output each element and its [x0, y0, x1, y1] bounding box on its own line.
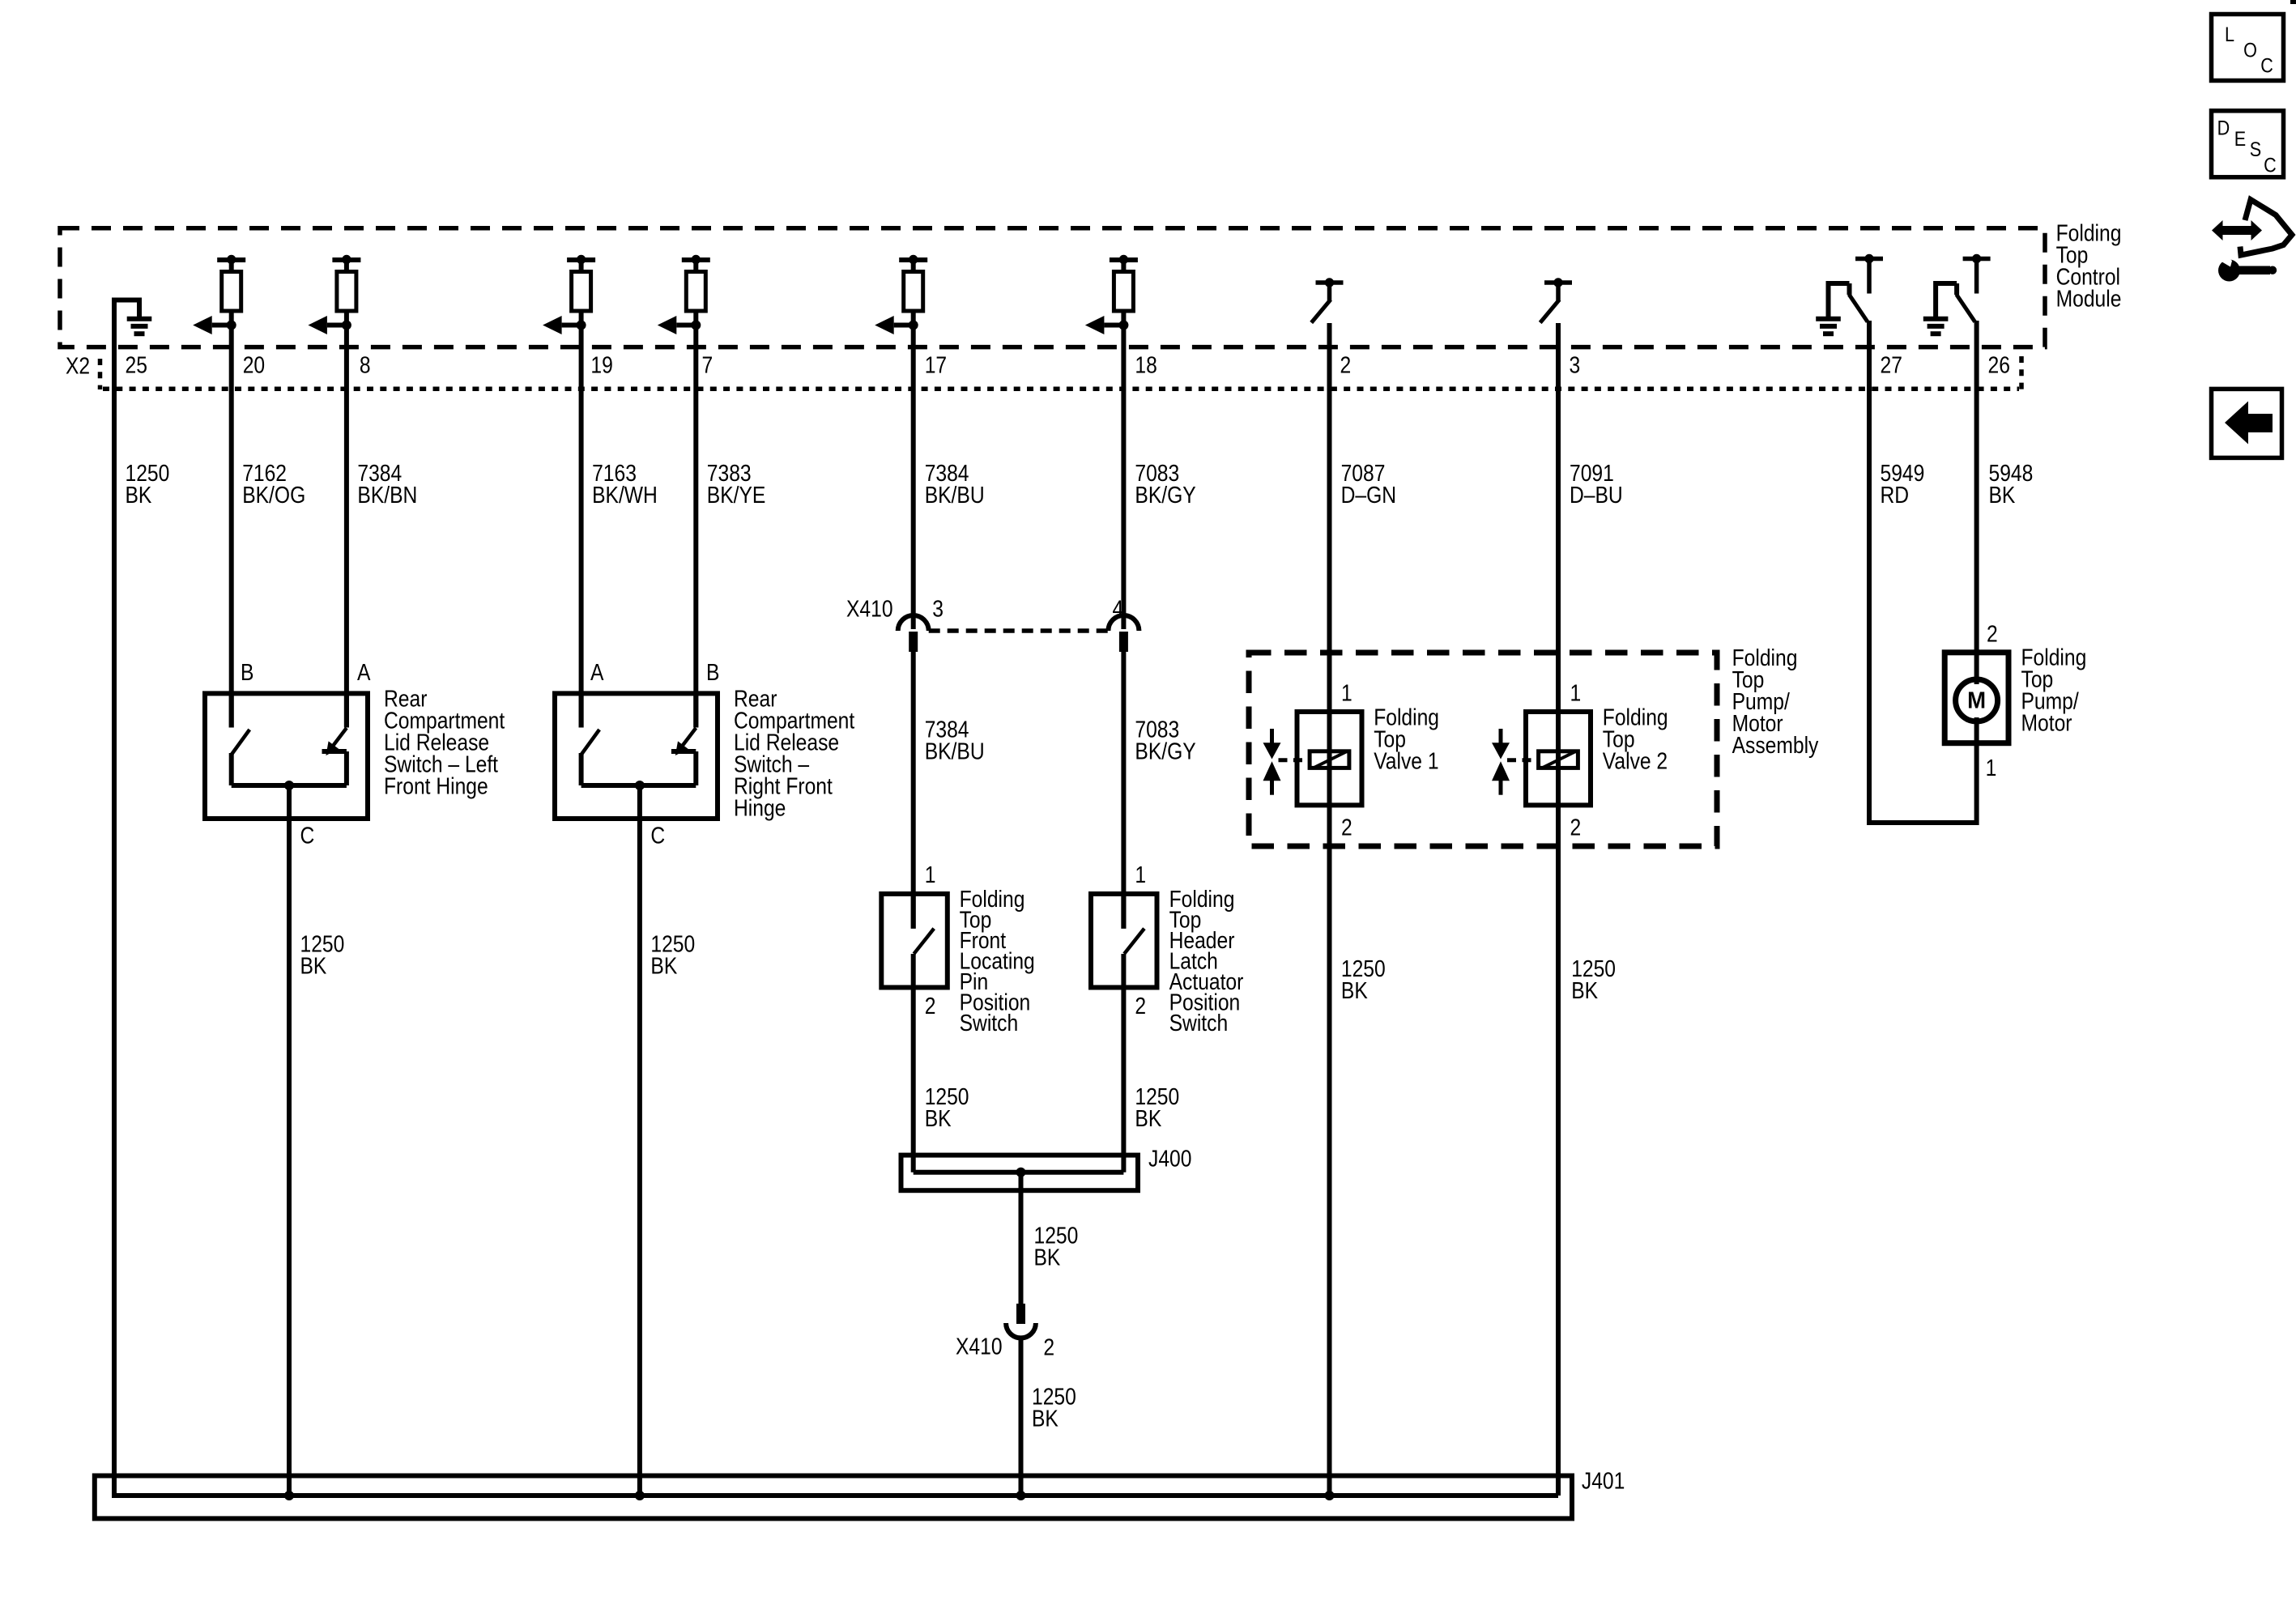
svg-text:2: 2 — [1135, 994, 1146, 1019]
wire pin20 to switch — [229, 326, 234, 728]
svg-text:2: 2 — [1570, 815, 1582, 840]
motor box: Folding Top Pump/Motor — [1945, 653, 2008, 743]
svg-text:Motor: Motor — [2021, 710, 2072, 736]
corner tick — [2290, 0, 2296, 4]
switch: Folding Top Header Latch Actuator Position Switch — [1091, 894, 1157, 988]
connector X410 dashed tie — [929, 628, 1109, 633]
splice pack J401 box — [95, 1476, 1572, 1519]
motor M1 circle — [1956, 679, 1998, 721]
splice pack J400 bus — [914, 1170, 1124, 1175]
svg-text:S: S — [2250, 138, 2261, 161]
svg-text:BK: BK — [1989, 482, 2016, 508]
connector X410 pin3 — [898, 615, 929, 631]
ground G (module internal) trace — [114, 300, 139, 1496]
connector X410 pin2 — [1016, 1304, 1025, 1324]
svg-text:BK: BK — [1571, 977, 1598, 1003]
svg-text:D–GN: D–GN — [1341, 482, 1396, 508]
svg-text:BK: BK — [300, 953, 327, 979]
assembly box: Folding Top Pump/Motor Assembly (dashed) — [1249, 653, 1717, 846]
svg-text:B: B — [241, 660, 253, 686]
svg-text:20: 20 — [243, 352, 265, 378]
svg-text:BK: BK — [1341, 977, 1368, 1003]
wire X410-3 to position switch — [911, 650, 916, 929]
switch S3 (module internal, pin 3) — [1544, 280, 1572, 285]
icon wrench — [2218, 260, 2240, 282]
wire pin18 to X410 — [1121, 326, 1126, 630]
wire C left switch to J401 — [287, 785, 292, 1496]
wire pin3 to J401 — [1556, 323, 1561, 1496]
icon hand outline — [2240, 200, 2292, 256]
switch: Rear Compartment Lid Release Switch - Right Front Hinge — [555, 693, 718, 819]
svg-text:7: 7 — [702, 352, 714, 378]
valve V2: Folding Top Valve 2 — [1526, 712, 1591, 805]
svg-text:X410: X410 — [956, 1334, 1003, 1360]
svg-text:BK/YE: BK/YE — [707, 482, 766, 508]
svg-text:O: O — [2243, 39, 2257, 62]
svg-text:27: 27 — [1881, 352, 1902, 378]
svg-text:Module: Module — [2056, 286, 2122, 312]
wire pin17 to X410 — [911, 326, 916, 630]
svg-text:BK/WH: BK/WH — [592, 482, 658, 508]
svg-text:3: 3 — [932, 596, 944, 622]
svg-text:1: 1 — [925, 862, 936, 888]
valve V1: Folding Top Valve 1 — [1297, 712, 1362, 805]
svg-text:1: 1 — [1986, 755, 1997, 781]
wire pin26 to motor — [1974, 321, 1979, 684]
icon double-arrow — [2212, 220, 2262, 240]
switch: Folding Top Front Locating Pin Position Switch — [881, 894, 948, 988]
svg-text:E: E — [2234, 127, 2246, 150]
svg-text:RD: RD — [1881, 482, 1910, 508]
wire C right switch to J401 — [637, 785, 642, 1496]
icon back-arrow — [2225, 402, 2273, 445]
connector X2 dotted row — [103, 387, 2019, 392]
svg-text:Switch: Switch — [1169, 1011, 1229, 1036]
wire pin8 to switch — [344, 326, 349, 728]
svg-text:BK: BK — [126, 482, 152, 508]
svg-text:C: C — [300, 823, 315, 849]
svg-text:BK/BN: BK/BN — [357, 482, 417, 508]
connector X410 pin4 — [1108, 615, 1139, 631]
svg-text:M: M — [1967, 687, 1986, 713]
svg-text:1: 1 — [1341, 680, 1352, 706]
svg-text:BK/BU: BK/BU — [925, 482, 985, 508]
svg-text:1: 1 — [1570, 680, 1582, 706]
svg-text:26: 26 — [1988, 352, 2010, 378]
svg-text:D–BU: D–BU — [1570, 482, 1623, 508]
svg-text:Assembly: Assembly — [1732, 732, 1819, 758]
svg-text:19: 19 — [590, 352, 612, 378]
svg-text:Valve 1: Valve 1 — [1374, 748, 1438, 774]
junction dot J401-4 — [1325, 1491, 1335, 1500]
resistor R20 (pin pull-up with arrow) — [217, 257, 245, 262]
wire front locating switch to J400 — [911, 954, 916, 1172]
svg-text:X410: X410 — [846, 596, 893, 622]
svg-text:3: 3 — [1570, 352, 1581, 378]
junction dot J401-3 — [1016, 1491, 1026, 1500]
wire pin7 to switch — [693, 326, 698, 728]
svg-text:2: 2 — [1987, 621, 1998, 647]
svg-text:2: 2 — [1341, 815, 1352, 840]
icon DESC box — [2212, 111, 2284, 177]
resistor R19 (pin pull-up with arrow) — [567, 257, 595, 262]
wire pin2 to J401 — [1327, 323, 1332, 1496]
junction dot J400 — [1016, 1168, 1026, 1177]
svg-text:B: B — [706, 660, 719, 686]
connector X2 right bracket — [2019, 356, 2024, 389]
svg-text:BK/OG: BK/OG — [242, 482, 305, 508]
svg-text:BK: BK — [650, 953, 677, 979]
junction dot J401-1 — [284, 1491, 294, 1500]
resistor R7 (pin pull-up with arrow) — [682, 257, 710, 262]
wire J400 to X410-2 — [1019, 1172, 1024, 1304]
ground G symbol — [127, 317, 152, 321]
svg-text:BK: BK — [1032, 1406, 1059, 1432]
svg-text:BK/BU: BK/BU — [925, 738, 985, 764]
icon back-arrow box — [2212, 389, 2282, 457]
wire header latch switch to J400 — [1121, 954, 1126, 1172]
svg-text:X2: X2 — [66, 353, 90, 379]
connector X2 left bracket — [98, 359, 103, 389]
svg-text:Hinge: Hinge — [734, 795, 786, 821]
svg-text:C: C — [2264, 154, 2277, 177]
svg-text:Front Hinge: Front Hinge — [384, 773, 488, 799]
svg-text:2: 2 — [1043, 1334, 1054, 1360]
svg-text:J400: J400 — [1148, 1146, 1191, 1172]
svg-text:2: 2 — [1340, 352, 1352, 378]
wire pin19 to switch — [579, 326, 584, 728]
svg-text:J401: J401 — [1582, 1468, 1625, 1494]
wire pin27 down and across to motor pin1 — [1869, 321, 1977, 823]
splice pack J401 bus — [112, 1493, 1558, 1498]
icon LOC box — [2212, 15, 2284, 81]
switch S27 to ground (module internal) — [1855, 257, 1883, 262]
splice pack J400 box — [901, 1155, 1139, 1191]
svg-text:17: 17 — [925, 352, 947, 378]
svg-text:L: L — [2225, 23, 2234, 46]
resistor R17 (pin pull-up with arrow) — [899, 257, 927, 262]
svg-text:A: A — [590, 660, 604, 686]
svg-text:Switch: Switch — [960, 1011, 1019, 1036]
switch S26 to ground (module internal) — [1963, 257, 1991, 262]
wire X410-4 to position switch — [1121, 650, 1126, 929]
resistor R8 (pin pull-up with arrow) — [332, 257, 360, 262]
switch S2 (module internal, pin 2) — [1316, 280, 1344, 285]
svg-text:4: 4 — [1113, 596, 1124, 622]
svg-text:BK: BK — [925, 1105, 952, 1131]
svg-text:BK/GY: BK/GY — [1135, 482, 1196, 508]
svg-text:25: 25 — [126, 352, 147, 378]
svg-text:C: C — [2260, 54, 2273, 77]
svg-text:A: A — [357, 660, 371, 686]
resistor R18 (pin pull-up with arrow) — [1110, 257, 1138, 262]
wire X410-2 to J401 — [1019, 1336, 1024, 1496]
svg-text:BK/GY: BK/GY — [1135, 738, 1196, 764]
svg-text:8: 8 — [360, 352, 371, 378]
junction dot J401-2 — [635, 1491, 645, 1500]
ECU box: Folding Top Control Module (dashed) — [60, 228, 2045, 347]
svg-text:C: C — [650, 823, 665, 849]
svg-text:18: 18 — [1135, 352, 1157, 378]
svg-text:1: 1 — [1135, 862, 1146, 888]
svg-text:Valve 2: Valve 2 — [1603, 748, 1668, 774]
svg-text:D: D — [2217, 117, 2230, 139]
svg-text:BK: BK — [1034, 1245, 1061, 1270]
svg-text:BK: BK — [1135, 1105, 1161, 1131]
switch: Rear Compartment Lid Release Switch - Left Front Hinge — [205, 693, 368, 819]
svg-text:2: 2 — [925, 994, 936, 1019]
